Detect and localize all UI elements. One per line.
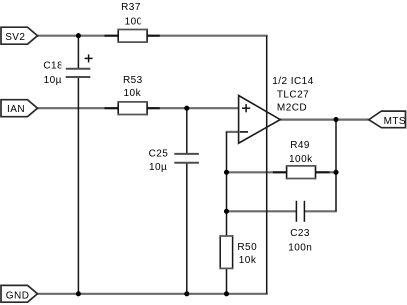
op-amp U1 half of IC14 TLC27M2CD <box>239 76 314 143</box>
svg-text:100k: 100k <box>289 154 313 165</box>
svg-text:1/2 IC14: 1/2 IC14 <box>272 76 313 87</box>
svg-text:100n: 100n <box>288 242 312 253</box>
wire vertical inverting-input feedback branch down to R50 top <box>226 132 228 236</box>
svg-text:R53: R53 <box>123 75 143 86</box>
wire vertical SV2 node down to C18 top plate <box>77 36 79 69</box>
body R50 <box>220 236 232 268</box>
junction dot inverting node / C23 <box>224 209 229 214</box>
wire net SV2: horizontal from SV2 flag to R37 <box>38 35 105 37</box>
pin wire R37 right lead <box>147 35 160 37</box>
svg-text:C23: C23 <box>290 228 310 239</box>
plate bottom C18 <box>66 76 91 78</box>
wire net IAN: horizontal from IAN flag to R53 <box>38 107 105 109</box>
wire vertical C18 bottom plate down to GND rail <box>77 77 79 294</box>
pin wire R53 left lead <box>105 107 119 109</box>
wire vertical right branch from SV2/R37 net down to GND rail <box>266 36 268 294</box>
pin wire R53 right lead <box>147 107 160 109</box>
wire net from R53 to op-amp non-inverting input <box>160 107 239 109</box>
svg-text:C18: C18 <box>43 61 63 72</box>
capacitor C23 <box>288 201 312 254</box>
plate right C23 <box>303 201 305 222</box>
svg-text:10µ: 10µ <box>44 75 62 86</box>
wire net GND: horizontal bottom rail <box>38 293 268 295</box>
pin wire R49 right lead <box>316 171 330 173</box>
svg-text:R49: R49 <box>290 140 310 151</box>
svg-text:10k: 10k <box>124 88 142 99</box>
svg-text:10µ: 10µ <box>149 162 167 173</box>
ground flag GND <box>1 285 38 302</box>
wire vertical IAN node down to C25 top plate <box>186 108 188 154</box>
polarity plus sign <box>85 57 93 59</box>
wire R49 right to output branch <box>330 171 337 173</box>
body R53 <box>118 102 147 115</box>
body R49 <box>287 166 316 179</box>
junction dot GND rail / C25 branch <box>184 291 189 296</box>
svg-text:10k: 10k <box>239 255 257 266</box>
pin wire R49 left lead <box>273 171 287 173</box>
connector flag MTS (output) <box>369 111 406 128</box>
pin wire R37 left lead <box>105 35 119 37</box>
resistor R49 <box>273 140 330 179</box>
svg-text:MTS: MTS <box>384 116 406 127</box>
junction dot inverting node / R49 <box>224 170 229 175</box>
resistor R50 (vertical) <box>219 235 257 269</box>
svg-text:R50: R50 <box>237 242 257 253</box>
svg-text:100: 100 <box>125 17 143 28</box>
wire feedback node to C23 left plate <box>226 210 297 212</box>
wire net MTS: op-amp output to MTS flag <box>280 118 369 120</box>
wire vertical output node down to feedback network <box>335 120 337 212</box>
junction dot R49 right / output branch <box>333 170 338 175</box>
wire feedback node to R49 left <box>226 171 273 173</box>
wire C23 right plate to output branch <box>304 210 336 212</box>
capacitor C18 (polarized) <box>43 54 92 86</box>
plate top C25 <box>174 153 199 155</box>
junction dot GND rail / R50 <box>224 291 229 296</box>
capacitor C25 <box>149 148 199 173</box>
connector flag SV2 <box>1 27 38 44</box>
svg-text:IAN: IAN <box>7 104 25 115</box>
resistor R37 <box>105 2 160 43</box>
connector flag IAN <box>1 100 38 117</box>
wire net after R37: horizontal to top-right corner <box>160 35 268 37</box>
non-inverting input plus mark <box>242 107 250 109</box>
svg-text:R37: R37 <box>121 2 141 13</box>
junction dot IAN node / C25 <box>184 106 189 111</box>
svg-text:C25: C25 <box>149 148 169 159</box>
wire vertical R50 bottom down to GND rail <box>226 268 228 293</box>
junction dot output node / feedback branch <box>333 117 338 122</box>
wire op-amp inverting input jog <box>226 131 239 133</box>
inverting input minus mark <box>240 131 248 133</box>
triangle body <box>239 96 281 144</box>
svg-text:TLC27: TLC27 <box>277 89 309 100</box>
svg-text:M2CD: M2CD <box>277 103 307 114</box>
svg-text:GND: GND <box>6 290 30 301</box>
junction dot SV2 node / C18 <box>76 33 81 38</box>
body R37 <box>118 30 147 43</box>
plate top C18 <box>66 68 91 70</box>
plate left C23 <box>295 201 297 222</box>
resistor R53 <box>105 75 160 116</box>
wire vertical C25 bottom plate down to GND rail <box>186 163 188 294</box>
plate bottom C25 <box>174 162 199 164</box>
svg-text:SV2: SV2 <box>5 32 25 43</box>
junction dot GND rail / C18 branch <box>76 291 81 296</box>
